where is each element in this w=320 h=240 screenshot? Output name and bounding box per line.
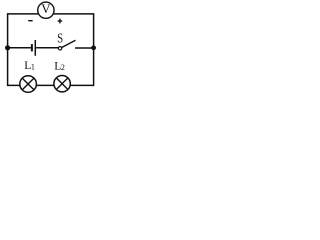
wire middle left — [8, 47, 31, 49]
switch S pivot — [58, 47, 61, 50]
wire right rail — [93, 13, 95, 86]
battery BT1 short plate — [31, 44, 33, 51]
wire left rail — [7, 13, 9, 86]
svg-text:S: S — [57, 31, 63, 46]
lamp L1 circle — [20, 76, 37, 93]
node junction right — [91, 45, 96, 50]
lamp L1 cross — [22, 78, 34, 90]
polarity plus — [58, 19, 63, 24]
svg-text:L2: L2 — [54, 61, 65, 73]
svg-text:L1: L1 — [24, 60, 35, 72]
wire battery to switch — [36, 47, 58, 49]
switch S blade — [62, 40, 76, 47]
polarity minus — [28, 20, 32, 22]
wire switch to right rail — [75, 47, 94, 49]
lamp L2 cross — [56, 78, 67, 89]
node junction left — [5, 45, 10, 50]
wire bottom (lamp branch) — [8, 84, 94, 86]
voltmeter U1 circle — [38, 2, 54, 18]
lamp L2 circle — [54, 76, 70, 92]
battery BT1 long plate — [34, 40, 36, 56]
wire top (voltmeter branch) — [8, 13, 94, 15]
svg-text:V: V — [41, 2, 51, 16]
